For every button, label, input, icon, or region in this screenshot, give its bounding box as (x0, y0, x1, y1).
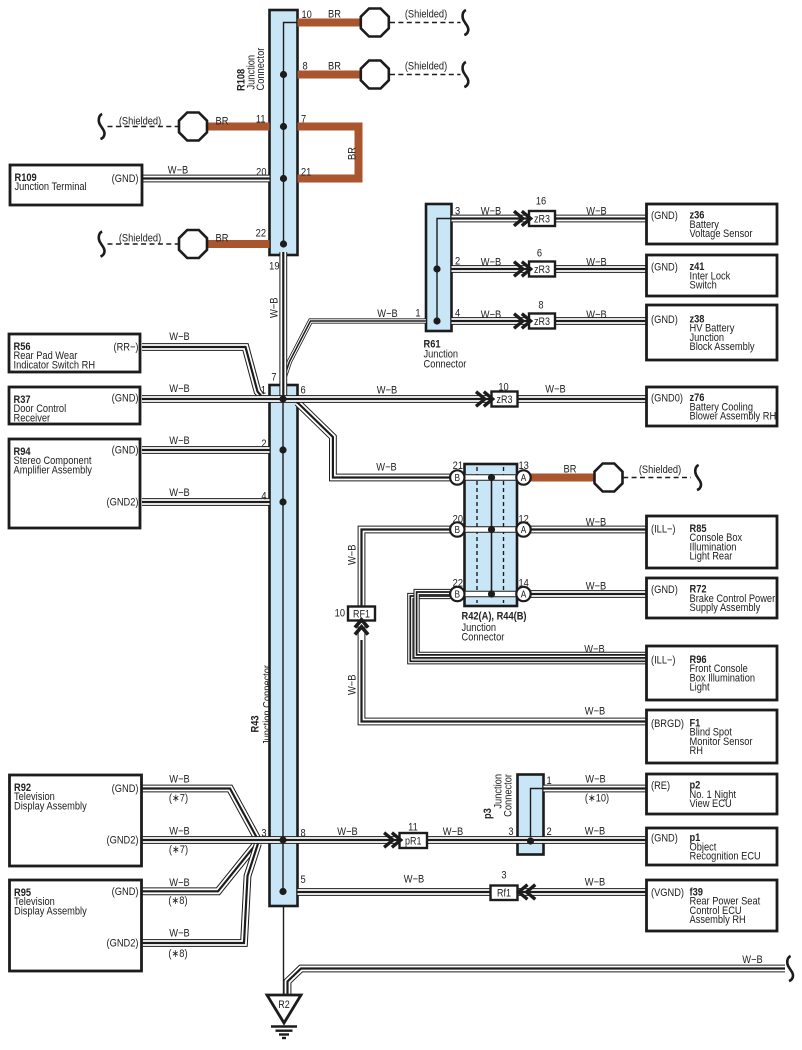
svg-text:4: 4 (261, 491, 266, 503)
svg-text:W−B: W−B (586, 309, 607, 321)
svg-text:W−B: W−B (169, 331, 190, 343)
svg-text:(∗8): (∗8) (168, 948, 187, 960)
svg-text:BR: BR (564, 464, 577, 476)
svg-text:W−B: W−B (377, 308, 398, 320)
svg-text:(GND): (GND) (651, 314, 678, 326)
svg-text:(GND0): (GND0) (651, 393, 683, 405)
svg-text:Connector: Connector (503, 773, 515, 816)
svg-text:19: 19 (269, 261, 280, 273)
svg-text:Amplifier Assembly: Amplifier Assembly (14, 465, 93, 477)
svg-text:(∗7): (∗7) (169, 793, 188, 805)
svg-text:p3: p3 (482, 808, 494, 819)
svg-text:zR3: zR3 (534, 214, 550, 226)
svg-text:(GND2): (GND2) (107, 938, 139, 950)
svg-text:BR: BR (216, 116, 229, 128)
svg-text:W−B: W−B (545, 384, 566, 396)
svg-text:W−B: W−B (586, 581, 607, 593)
svg-text:2: 2 (547, 826, 552, 838)
svg-text:W−B: W−B (169, 877, 190, 889)
svg-text:Junction Connector: Junction Connector (262, 664, 274, 745)
svg-text:16: 16 (536, 196, 547, 208)
svg-text:7: 7 (301, 114, 306, 126)
svg-text:W−B: W−B (169, 928, 190, 940)
svg-text:(RE): (RE) (651, 780, 670, 792)
svg-text:Recognition ECU: Recognition ECU (690, 851, 761, 863)
svg-text:R43: R43 (250, 715, 262, 732)
svg-text:W−B: W−B (404, 874, 425, 886)
svg-text:21: 21 (301, 167, 312, 179)
svg-text:(GND): (GND) (651, 833, 678, 845)
svg-text:W−B: W−B (481, 206, 502, 218)
svg-text:W−B: W−B (169, 435, 190, 447)
svg-text:W−B: W−B (481, 257, 502, 269)
svg-text:W−B: W−B (443, 826, 464, 838)
svg-text:20: 20 (453, 514, 464, 526)
svg-text:Connector: Connector (255, 47, 267, 90)
svg-text:(∗7): (∗7) (169, 844, 188, 856)
svg-text:Display Assembly: Display Assembly (14, 801, 88, 813)
svg-text:(∗10): (∗10) (585, 793, 609, 805)
svg-text:pR1: pR1 (405, 836, 422, 848)
svg-text:6: 6 (537, 248, 542, 260)
svg-text:3: 3 (261, 828, 266, 840)
svg-text:(BRGD): (BRGD) (651, 718, 684, 730)
svg-text:Indicator Switch RH: Indicator Switch RH (14, 360, 96, 372)
svg-text:W−B: W−B (169, 826, 190, 838)
svg-text:B: B (455, 524, 461, 535)
svg-text:W−B: W−B (584, 644, 605, 656)
svg-text:W−B: W−B (585, 774, 606, 786)
svg-text:Blower Assembly RH: Blower Assembly RH (690, 411, 777, 423)
svg-text:Display Assembly: Display Assembly (14, 906, 88, 918)
svg-text:12: 12 (519, 514, 530, 526)
svg-text:W−B: W−B (586, 257, 607, 269)
svg-text:(RR−): (RR−) (113, 342, 138, 354)
svg-text:11: 11 (408, 822, 418, 834)
svg-text:W−B: W−B (337, 826, 358, 838)
svg-text:Supply Assembly: Supply Assembly (690, 602, 761, 614)
svg-text:zR3: zR3 (497, 394, 513, 406)
svg-text:A: A (521, 524, 527, 535)
svg-text:BR: BR (328, 9, 341, 21)
svg-text:(ILL−): (ILL−) (651, 524, 676, 536)
svg-text:W−B: W−B (269, 297, 281, 318)
svg-text:View ECU: View ECU (690, 798, 732, 810)
svg-text:W−B: W−B (347, 674, 359, 695)
svg-text:21: 21 (453, 460, 464, 472)
svg-text:Rf1: Rf1 (497, 888, 511, 900)
svg-text:(GND): (GND) (112, 393, 139, 405)
svg-text:(GND2): (GND2) (107, 835, 139, 847)
svg-text:1: 1 (261, 385, 266, 397)
svg-text:A: A (521, 589, 527, 600)
svg-text:BR: BR (328, 61, 341, 73)
svg-text:W−B: W−B (169, 774, 190, 786)
svg-text:11: 11 (256, 114, 266, 126)
svg-text:W−B: W−B (481, 309, 502, 321)
svg-text:8: 8 (301, 828, 306, 840)
svg-text:BR: BR (216, 233, 229, 245)
svg-text:(Shielded): (Shielded) (405, 61, 447, 73)
svg-text:Receiver: Receiver (14, 413, 51, 425)
svg-text:2: 2 (261, 438, 266, 450)
svg-text:(Shielded): (Shielded) (119, 233, 161, 245)
svg-text:3: 3 (508, 826, 513, 838)
svg-text:Switch: Switch (690, 280, 718, 292)
svg-text:5: 5 (301, 874, 306, 886)
svg-text:7: 7 (271, 372, 276, 384)
svg-text:B: B (455, 589, 461, 600)
svg-text:14: 14 (519, 578, 530, 590)
svg-text:Block Assembly: Block Assembly (690, 341, 756, 353)
svg-text:3: 3 (501, 870, 506, 882)
svg-text:(GND): (GND) (112, 173, 139, 185)
svg-text:13: 13 (519, 460, 530, 472)
svg-text:(Shielded): (Shielded) (119, 116, 161, 128)
svg-text:3: 3 (455, 206, 460, 218)
svg-text:(∗8): (∗8) (168, 895, 187, 907)
svg-text:(VGND): (VGND) (651, 887, 684, 899)
svg-text:Junction Terminal: Junction Terminal (15, 181, 87, 193)
svg-text:(ILL−): (ILL−) (651, 655, 676, 667)
svg-text:22: 22 (453, 578, 464, 590)
svg-text:8: 8 (303, 61, 308, 73)
svg-text:22: 22 (256, 228, 267, 240)
svg-text:W−B: W−B (586, 206, 607, 218)
svg-text:Light: Light (690, 682, 710, 694)
svg-text:1: 1 (415, 308, 420, 320)
svg-text:RH: RH (690, 745, 703, 757)
svg-text:6: 6 (301, 385, 306, 397)
svg-text:W−B: W−B (347, 544, 359, 565)
svg-text:(GND): (GND) (651, 262, 678, 274)
svg-text:2: 2 (455, 256, 460, 268)
svg-text:W−B: W−B (376, 462, 397, 474)
svg-text:W−B: W−B (169, 487, 190, 499)
svg-text:(GND): (GND) (651, 210, 678, 222)
svg-text:Voltage Sensor: Voltage Sensor (690, 228, 754, 240)
svg-text:8: 8 (538, 300, 543, 312)
svg-text:B: B (455, 472, 461, 483)
svg-text:zR3: zR3 (534, 264, 550, 276)
svg-text:W−B: W−B (168, 165, 189, 177)
svg-text:1: 1 (547, 775, 552, 787)
svg-text:Connector: Connector (424, 359, 467, 371)
svg-text:(GND): (GND) (112, 783, 139, 795)
svg-text:(Shielded): (Shielded) (639, 464, 681, 476)
svg-text:(Shielded): (Shielded) (405, 9, 447, 21)
svg-text:(GND): (GND) (112, 445, 139, 457)
svg-text:(GND): (GND) (651, 584, 678, 596)
svg-text:20: 20 (256, 167, 267, 179)
svg-text:Light Rear: Light Rear (690, 551, 733, 563)
svg-text:W−B: W−B (377, 385, 398, 397)
svg-text:R42(A), R44(B): R42(A), R44(B) (462, 611, 527, 623)
svg-text:zR3: zR3 (534, 316, 550, 328)
svg-text:4: 4 (455, 308, 460, 320)
svg-text:R2: R2 (278, 999, 290, 1011)
svg-text:A: A (521, 472, 527, 483)
svg-text:W−B: W−B (586, 517, 607, 529)
svg-text:10: 10 (335, 608, 346, 620)
svg-text:W−B: W−B (742, 954, 763, 966)
svg-text:BR: BR (347, 147, 359, 160)
svg-text:(GND): (GND) (112, 886, 139, 898)
svg-text:Assembly RH: Assembly RH (690, 914, 746, 926)
svg-text:W−B: W−B (169, 383, 190, 395)
svg-text:W−B: W−B (585, 706, 606, 718)
svg-text:10: 10 (498, 382, 509, 394)
svg-text:Connector: Connector (462, 632, 505, 644)
svg-text:10: 10 (302, 9, 313, 21)
svg-text:W−B: W−B (585, 826, 606, 838)
svg-text:(GND2): (GND2) (107, 497, 139, 509)
svg-text:W−B: W−B (585, 877, 606, 889)
